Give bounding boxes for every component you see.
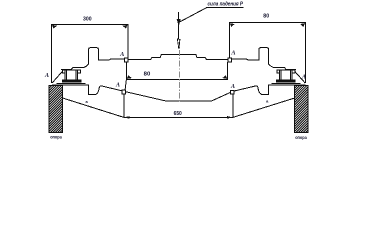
svg-text:сила падения Р: сила падения Р <box>208 2 244 8</box>
seat line right <box>272 82 301 84</box>
extension line left lower <box>123 93 125 117</box>
dimension D4 arrow right <box>227 116 233 119</box>
svg-text:300: 300 <box>83 17 92 23</box>
saddle left base <box>62 80 81 82</box>
force arrowhead filled <box>177 19 181 26</box>
anvil underside left <box>52 85 124 95</box>
saddle right ear R <box>292 70 295 73</box>
anvil top profile right <box>232 48 306 83</box>
svg-text:A: A <box>44 72 49 79</box>
svg-text:80: 80 <box>263 14 269 20</box>
svg-text:A: A <box>119 51 124 58</box>
support column right <box>295 86 309 133</box>
anvil top profile centre <box>128 55 228 60</box>
anvil underside centre <box>124 91 233 101</box>
dimension D1 left bracket 300 <box>52 24 128 82</box>
svg-text:a: a <box>85 99 88 104</box>
saddle left ear R <box>78 70 81 73</box>
dimension D2 tick left <box>230 23 235 27</box>
svg-text:80: 80 <box>144 72 151 78</box>
node A upper-left <box>125 58 129 62</box>
dimension D3 tick left <box>127 75 132 79</box>
svg-text:A: A <box>230 83 235 90</box>
force line F <box>178 12 180 39</box>
saddle right waist <box>280 70 293 80</box>
svg-text:650: 650 <box>174 111 182 117</box>
saddle right base <box>276 80 295 82</box>
svg-text:опора: опора <box>50 135 62 140</box>
support column left <box>49 86 62 133</box>
seat line left <box>57 82 86 84</box>
dimension D4 arrow left <box>124 116 130 119</box>
svg-text:a: a <box>266 99 269 104</box>
long diagonal right <box>233 98 295 117</box>
svg-text:A: A <box>230 49 235 56</box>
dimension D1 tick right <box>123 25 128 29</box>
saddle right ear L <box>277 70 280 73</box>
dimension D3 middle bracket 80 <box>126 62 227 80</box>
node A lower-right <box>231 90 235 94</box>
dimension D2 right bracket 80 <box>229 23 305 83</box>
node A upper-right <box>228 58 232 62</box>
long diagonal left <box>63 98 124 117</box>
dimension D1 tick left <box>52 25 57 29</box>
dimension D3 tick right <box>222 75 227 79</box>
extension line right lower <box>232 93 234 117</box>
anvil underside right <box>233 85 306 95</box>
centerline <box>178 40 180 103</box>
anvil top profile <box>52 48 124 83</box>
saddle left waist <box>65 70 78 80</box>
node A lower-left <box>122 90 126 94</box>
leader line <box>179 7 244 22</box>
extension line left mid <box>125 79 126 90</box>
dimension D2 tick right <box>300 23 305 27</box>
svg-text:A: A <box>301 73 306 80</box>
saddle left ear L <box>62 70 65 73</box>
dimension D4 bottom 650 <box>124 116 233 118</box>
svg-text:A: A <box>115 82 120 89</box>
svg-text:опора: опора <box>295 135 307 140</box>
force arrowhead open <box>177 39 180 49</box>
